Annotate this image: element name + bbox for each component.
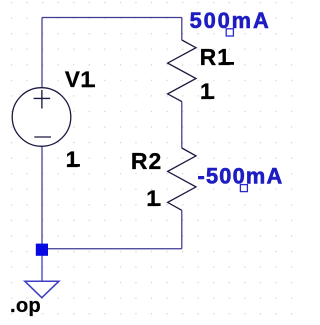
wire below R2 to bottom corner (181, 210, 183, 249)
foot serif of V1 value 1 (67, 164, 80, 167)
resistor R2 zigzag (168, 148, 196, 210)
anchor square of 500mA label (226, 29, 233, 36)
foot serif of V1 digit (82, 84, 95, 87)
svg-text:1: 1 (66, 147, 79, 172)
svg-text:.op: .op (10, 295, 41, 317)
V1 plus sign (34, 90, 51, 109)
svg-text:1: 1 (200, 79, 213, 104)
wire right vertical top (to R1) (181, 18, 183, 41)
wire between R1 and R2 (181, 102, 183, 148)
foot serif of R1 digit (221, 62, 234, 65)
ground symbol (25, 281, 59, 298)
svg-text:1: 1 (146, 186, 159, 211)
V1 minus sign (34, 136, 51, 138)
wire bottom horizontal (42, 248, 182, 250)
svg-text:R1: R1 (200, 44, 231, 70)
voltage source V1 circle (12, 88, 71, 147)
anchor square of -500mA label (240, 185, 247, 192)
junction node square (36, 244, 48, 256)
wire V1 bottom to junction (41, 147, 43, 249)
foot serif of R1 value 1 (202, 96, 215, 99)
wire left vertical to V1 top (41, 18, 43, 88)
foot serif of R2 value 1 (148, 203, 161, 206)
wire top horizontal (42, 17, 182, 19)
wire junction to ground (41, 249, 43, 282)
resistor R1 zigzag (168, 40, 196, 102)
svg-text:R2: R2 (131, 148, 162, 174)
svg-text:V1: V1 (65, 67, 94, 92)
